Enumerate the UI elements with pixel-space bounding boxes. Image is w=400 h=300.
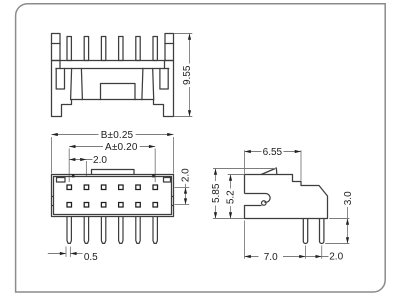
svg-text:2.0: 2.0 — [93, 155, 107, 166]
front view pin 2 up — [84, 37, 88, 61]
dimension 5.85 — [211, 169, 277, 219]
front view central boss — [101, 84, 136, 100]
front view body outline — [52, 61, 174, 117]
side view pin 1 — [303, 219, 307, 244]
front view right rib — [142, 69, 154, 100]
dimension 2.0 pitch — [69, 155, 107, 177]
svg-text:A±0.20: A±0.20 — [105, 142, 138, 153]
svg-text:5.85: 5.85 — [211, 183, 222, 203]
front view inner shelf line — [56, 68, 169, 70]
dimension 2.0 row spacing — [175, 168, 192, 205]
top view left notch tick — [72, 174, 75, 177]
front view left slot — [56, 69, 64, 90]
side view contact slot — [245, 194, 271, 203]
top view right notch tick — [152, 174, 155, 177]
top view left wall seams — [52, 197, 54, 206]
svg-text:3.0: 3.0 — [343, 191, 354, 205]
dimension 7.0 — [245, 221, 306, 263]
top view left slot — [57, 178, 66, 183]
bottom pins under top view — [67, 217, 157, 244]
side view body outline — [245, 175, 328, 219]
front view right wall tick — [164, 61, 166, 69]
front view right tab divider — [165, 43, 174, 45]
svg-text:9.55: 9.55 — [182, 65, 193, 85]
dimension 2.0 pin spacing — [306, 246, 344, 263]
front view left rib — [71, 69, 83, 100]
top view outer body — [52, 175, 174, 217]
front view right end tab — [165, 34, 174, 61]
dimension A±0.20 — [69, 142, 155, 182]
front view pin 3 up — [101, 37, 105, 61]
front view left wall tick — [59, 61, 61, 69]
top view right wall seams — [172, 197, 174, 206]
svg-text:B±0.25: B±0.25 — [101, 130, 134, 141]
dimension 9.55 — [174, 34, 193, 117]
side view pin 2 — [320, 219, 324, 244]
front view pin 1 up — [67, 37, 71, 61]
side view slot nub — [262, 201, 267, 206]
front view left end tab — [52, 34, 61, 61]
dimension 5.2 — [226, 175, 245, 219]
front view pin 5 up — [136, 37, 140, 61]
front view left tab divider — [52, 43, 61, 45]
front view pin 6 up — [153, 37, 157, 61]
top view right slot — [164, 178, 171, 183]
svg-text:0.5: 0.5 — [84, 252, 98, 263]
svg-text:2.0: 2.0 — [329, 252, 343, 263]
top view inner wall — [54, 177, 172, 215]
svg-text:6.55: 6.55 — [263, 147, 283, 158]
front view pin 4 up — [119, 37, 123, 61]
top view contact squares row 2 — [67, 203, 72, 208]
svg-text:2.0: 2.0 — [181, 168, 192, 182]
side view latch wedge — [261, 168, 277, 175]
dimension 3.0 — [325, 190, 354, 244]
top view contact squares row 1 — [67, 185, 158, 207]
front view right slot — [160, 69, 168, 90]
svg-text:7.0: 7.0 — [264, 252, 278, 263]
dimension B±0.25 — [52, 130, 174, 174]
svg-text:5.2: 5.2 — [226, 190, 237, 204]
dimension 0.5 pin width — [48, 247, 98, 264]
dimension 6.55 — [245, 147, 302, 181]
top view polarization bump — [92, 170, 135, 175]
